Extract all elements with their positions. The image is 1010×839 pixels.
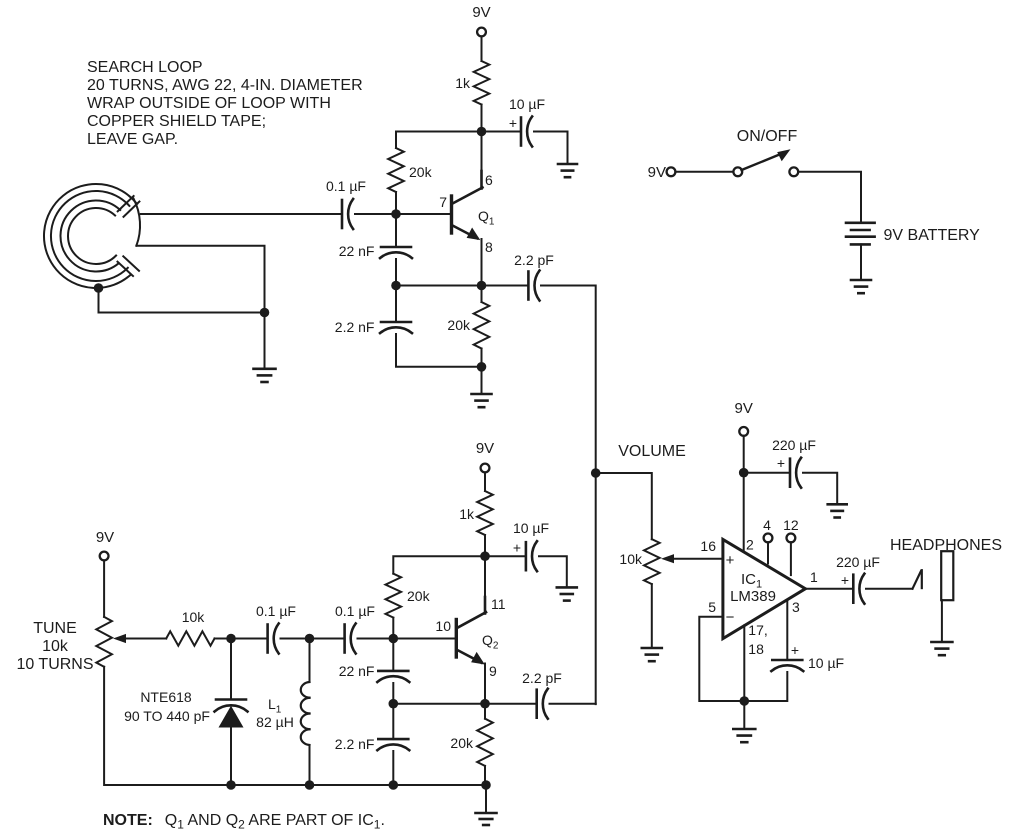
node varactor bottom: [226, 780, 236, 790]
wire emitter to 20k lower Q2: [484, 704, 486, 719]
wire loop top terminal to C1: [141, 213, 342, 215]
terminal 9V Q1: [477, 28, 486, 37]
svg-text:LM389: LM389: [730, 588, 776, 605]
node Q2 collector supply: [480, 551, 490, 561]
svg-text:10k: 10k: [619, 551, 643, 567]
svg-text:20k: 20k: [409, 164, 433, 180]
op-amp IC1 LM389 triangle: [723, 539, 806, 638]
wire C3 to emitter rail: [395, 259, 397, 286]
wire C4 to ground rail: [396, 334, 482, 367]
wiper VOLUME pot: [661, 554, 723, 563]
ground C2: [558, 164, 577, 177]
svg-text:10 TURNS: 10 TURNS: [16, 656, 93, 673]
svg-text:5: 5: [708, 599, 716, 615]
resistor 20k lower Q2: [477, 719, 493, 766]
svg-text:NTE618: NTE618: [140, 689, 192, 705]
capacitor C4 2.2 nF: [380, 322, 412, 333]
search loop coil (20 turns shielded loop): [44, 184, 140, 288]
node L1 bottom: [305, 780, 315, 790]
svg-text:TUNE: TUNE: [33, 620, 77, 637]
wire C6 to ground: [803, 473, 837, 503]
search loop note text: [87, 59, 363, 148]
switch arrowhead: [777, 149, 790, 161]
capacitor C7 220 uF: [853, 574, 864, 604]
capacitor C3 22 nF: [380, 247, 412, 258]
capacitor C10 0.1 uF: [345, 624, 356, 654]
svg-text:SEARCH LOOP: SEARCH LOOP: [87, 59, 203, 76]
ground Q2 stage: [476, 813, 497, 825]
wire pin 4: [767, 542, 769, 563]
wire 10k to varactor node: [215, 638, 232, 640]
capacitor C14 2.2 nF: [377, 739, 409, 750]
wire emitter rail: [396, 285, 482, 287]
resistor 20k lower Q1: [474, 302, 490, 349]
svg-text:−: −: [726, 609, 735, 626]
svg-text:18: 18: [748, 641, 764, 657]
svg-text:10 µF: 10 µF: [509, 96, 545, 112]
svg-text:8: 8: [485, 239, 493, 255]
wire node to C2: [482, 131, 522, 133]
wire to ground Q1: [481, 367, 483, 393]
node Q2 ground rail: [481, 780, 491, 790]
potentiometer VOLUME 10k: [644, 539, 660, 584]
svg-text:NOTE:Q1 AND Q2 ARE PART OF IC1: NOTE:Q1 AND Q2 ARE PART OF IC1.: [103, 812, 385, 832]
svg-text:2.2 pF: 2.2 pF: [522, 670, 562, 686]
wire node to C4: [395, 286, 397, 323]
ground loop: [254, 369, 276, 382]
wire C8 to ground rail: [744, 672, 787, 701]
wire junction down: [264, 313, 266, 369]
svg-text:VOLUME: VOLUME: [618, 443, 686, 460]
wire loop bottom terminal: [136, 246, 264, 313]
terminal pin 4: [764, 534, 773, 543]
wire Q2 ground stem: [485, 785, 487, 812]
svg-text:220 µF: 220 µF: [836, 554, 880, 570]
capacitor C6 220 uF: [790, 458, 801, 488]
terminal switch throw: [789, 167, 798, 176]
svg-text:+: +: [726, 552, 735, 569]
capacitor C5 2.2 pF: [528, 271, 539, 301]
svg-text:20k: 20k: [450, 735, 474, 751]
wire node to 20k upper: [396, 132, 482, 149]
wire base node to C11a: [392, 639, 394, 671]
wiper TUNE pot: [113, 634, 166, 643]
svg-text:7: 7: [439, 194, 447, 210]
wire C12 to ground: [539, 556, 567, 586]
wire bottom rail: [231, 784, 486, 786]
capacitor C1 0.1 uF: [342, 199, 353, 229]
terminal 9V IC1: [739, 427, 748, 436]
svg-text:11: 11: [491, 596, 506, 612]
svg-text:20k: 20k: [447, 317, 471, 333]
switch arm S1: [742, 154, 783, 171]
svg-text:20k: 20k: [407, 588, 431, 604]
node shield ground tap on loop: [94, 283, 104, 293]
capacitor C8 10 uF: [771, 660, 803, 671]
transistor Q2 (part of IC1): [456, 597, 486, 704]
svg-text:Q2: Q2: [482, 632, 499, 652]
ground Q1: [472, 394, 492, 407]
wire 20k to base node: [395, 192, 397, 214]
wire 20k lower to ground node: [481, 349, 483, 367]
wire 1k to collector node: [481, 105, 483, 172]
wire base node to Q1: [396, 213, 451, 215]
varactor diode D1 NTE618: [215, 639, 248, 786]
svg-text:+: +: [841, 572, 849, 588]
ground volume pot: [642, 648, 662, 661]
node Q2 base: [389, 634, 399, 644]
wire supply node to C6: [744, 472, 790, 474]
wire emitter node to C5: [482, 285, 529, 287]
terminal 9V tune: [100, 552, 109, 561]
wire pot to ground: [651, 584, 653, 647]
node emitter rail left Q2: [389, 699, 399, 709]
svg-text:10k: 10k: [182, 609, 206, 625]
node IC1 supply: [739, 468, 749, 478]
wire pins 17 18: [743, 625, 745, 701]
capacitor C13 22 nF: [377, 671, 409, 682]
svg-text:3: 3: [792, 599, 800, 615]
terminal switch pole: [733, 167, 742, 176]
resistor 1k Q1: [474, 61, 490, 105]
svg-text:1k: 1k: [459, 506, 475, 522]
wire shield tap to ground bus: [99, 288, 265, 313]
svg-text:6: 6: [485, 172, 493, 188]
inductor L1 82 uH: [301, 639, 310, 786]
svg-text:2.2 nF: 2.2 nF: [335, 319, 375, 335]
svg-text:9V: 9V: [648, 164, 666, 181]
svg-text:9V BATTERY: 9V BATTERY: [884, 227, 981, 244]
node varactor top: [226, 634, 236, 644]
svg-text:L1: L1: [268, 696, 282, 716]
wire output pin 1: [805, 588, 852, 590]
wire node to 20k upper Q2: [393, 556, 485, 573]
potentiometer TUNE 10k 10 TURNS: [96, 617, 112, 667]
wire base node to Q2: [393, 638, 455, 640]
node emitter rail right Q2: [480, 699, 490, 709]
svg-text:12: 12: [783, 517, 799, 533]
wire pin 2 supply: [743, 473, 745, 552]
svg-text:10 µF: 10 µF: [808, 655, 844, 671]
svg-text:+: +: [791, 642, 799, 658]
wire node to C14: [392, 704, 394, 739]
svg-text:LEAVE GAP.: LEAVE GAP.: [87, 131, 178, 148]
svg-text:+: +: [777, 455, 785, 471]
node Q1 collector supply: [477, 127, 487, 137]
svg-text:90 TO 440 pF: 90 TO 440 pF: [124, 708, 210, 724]
svg-text:82 µH: 82 µH: [256, 714, 294, 730]
svg-text:9V: 9V: [472, 4, 490, 21]
svg-text:2.2 pF: 2.2 pF: [514, 252, 554, 268]
ground battery: [851, 280, 871, 293]
label TUNE block: [16, 620, 93, 673]
svg-text:1: 1: [810, 569, 818, 585]
node emitter rail right: [477, 281, 487, 291]
node L1 top: [305, 634, 315, 644]
svg-text:9V: 9V: [735, 400, 753, 417]
svg-text:9V: 9V: [96, 529, 114, 546]
ground jack: [931, 642, 952, 655]
svg-text:16: 16: [700, 538, 716, 554]
wire battery to ground: [860, 244, 862, 279]
svg-text:22 nF: 22 nF: [339, 663, 375, 679]
wire node to C10: [310, 638, 345, 640]
headphone plug symbol: [913, 570, 922, 589]
wire C2 to ground: [534, 132, 568, 164]
wire pin 12: [790, 542, 792, 575]
ground IC1: [733, 729, 755, 742]
wire C9 to L1 node: [281, 638, 310, 640]
resistor 1k Q2: [477, 491, 493, 535]
wire C1 to Q1 base node: [355, 213, 396, 215]
wire switch feed: [675, 171, 733, 173]
terminal pin 12: [787, 534, 796, 543]
svg-text:10: 10: [435, 618, 451, 634]
svg-text:2.2 nF: 2.2 nF: [335, 736, 375, 752]
svg-text:22 nF: 22 nF: [339, 243, 375, 259]
node Q1 base: [391, 209, 401, 219]
wire bus lower half: [595, 473, 597, 704]
wire jack to ground: [941, 600, 943, 641]
wire 9V to R 1k Q2: [484, 472, 486, 491]
resistor 20k upper Q1: [388, 148, 404, 192]
capacitor C9 0.1 uF: [268, 624, 279, 654]
svg-text:10k: 10k: [42, 638, 69, 655]
svg-text:220 µF: 220 µF: [772, 437, 816, 453]
wire tune pot to bottom rail: [104, 667, 231, 785]
svg-text:0.1 µF: 0.1 µF: [335, 603, 375, 619]
wire base node to C3: [395, 214, 397, 247]
resistor R 10k tune: [166, 631, 214, 645]
node loop ground junction: [260, 308, 270, 318]
wire C14 to bottom rail: [392, 751, 394, 785]
svg-text:0.1 µF: 0.1 µF: [326, 178, 366, 194]
svg-text:Q1: Q1: [478, 208, 495, 228]
node emitter rail left: [391, 281, 401, 291]
node volume junction: [591, 468, 601, 478]
svg-text:WRAP OUTSIDE OF LOOP WITH: WRAP OUTSIDE OF LOOP WITH: [87, 95, 331, 112]
capacitor C12 10 uF: [526, 541, 537, 571]
wire node to C12: [485, 555, 526, 557]
wire emitter rail Q2: [393, 703, 485, 705]
ground C6: [828, 504, 847, 517]
svg-text:20 TURNS, AWG 22, 4-IN. DIAMET: 20 TURNS, AWG 22, 4-IN. DIAMETER: [87, 77, 363, 94]
wire C13 to emitter rail Q2: [392, 683, 394, 704]
wire emitter to 20k lower: [481, 286, 483, 303]
terminal 9V Q2: [481, 464, 490, 473]
svg-text:0.1 µF: 0.1 µF: [256, 603, 296, 619]
svg-text:ON/OFF: ON/OFF: [737, 128, 798, 145]
wire 20k to base node Q2: [392, 618, 394, 639]
node Q1 ground: [477, 362, 487, 372]
wire 9V to R 1k: [481, 36, 483, 61]
transistor Q1 (part of IC1): [452, 171, 483, 286]
wire IC ground stem: [743, 701, 745, 727]
svg-text:+: +: [513, 540, 521, 556]
wire pin 3 down: [786, 601, 788, 660]
capacitor C15 2.2 pF: [537, 689, 548, 719]
svg-text:1k: 1k: [455, 75, 471, 91]
wire node to C9: [231, 638, 268, 640]
svg-text:17,: 17,: [748, 622, 767, 638]
wire emitter node to C15: [485, 703, 537, 705]
node C11 bottom: [389, 780, 399, 790]
wire C10 to Q2 base node: [358, 638, 394, 640]
wire C15 to volume bus: [550, 703, 596, 705]
svg-text:9: 9: [489, 663, 497, 679]
svg-text:COPPER SHIELD TAPE;: COPPER SHIELD TAPE;: [87, 113, 266, 130]
wire 20k lower to rail: [484, 766, 486, 785]
wire switch to battery: [798, 172, 861, 222]
svg-text:9V: 9V: [476, 440, 494, 457]
wire pin 5 loop: [699, 617, 744, 701]
wire C7 to plug: [866, 588, 913, 590]
wire C5 to volume bus: [541, 286, 596, 474]
wire junction to volume pot: [596, 473, 652, 539]
svg-text:2: 2: [746, 537, 754, 553]
capacitor C2 10 uF: [521, 117, 532, 147]
headphone jack J1: [941, 551, 953, 600]
battery B1 9V: [846, 223, 875, 245]
ground C12: [557, 587, 577, 600]
wire 9V to tune pot: [103, 560, 105, 617]
svg-text:4: 4: [763, 517, 771, 533]
node IC1 ground: [740, 696, 750, 706]
wire 9V to supply node: [743, 436, 745, 473]
wire 1k to collector node Q2: [484, 535, 486, 613]
terminal switch left: [667, 167, 676, 176]
resistor 20k upper Q2: [386, 574, 402, 618]
svg-text:10 µF: 10 µF: [513, 520, 549, 536]
svg-text:+: +: [509, 115, 517, 131]
